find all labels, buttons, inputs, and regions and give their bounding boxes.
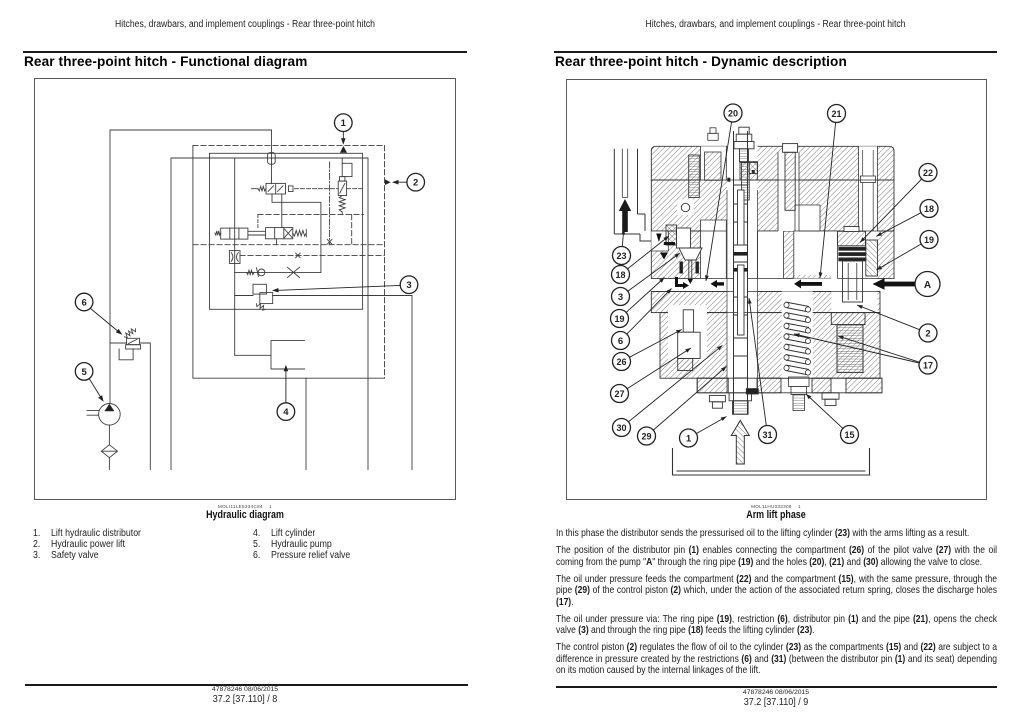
callout 2 (407, 173, 425, 191)
pilot dashed line (295, 188, 363, 190)
relief valve (6) (125, 329, 136, 338)
leader 23 (622, 229, 624, 247)
svg-text:21: 21 (831, 109, 841, 119)
leader 4 (285, 371, 287, 403)
suction filter (101, 445, 117, 458)
leader 17b (794, 334, 919, 363)
svg-text:1: 1 (686, 433, 692, 444)
callout 18 right (920, 200, 938, 218)
chamber C right (794, 231, 838, 275)
return spring (786, 302, 810, 375)
flow control restrictor (229, 251, 240, 264)
distributor enclosure solid (210, 153, 363, 309)
wire drain bottom (305, 378, 307, 469)
svg-text:1: 1 (341, 118, 347, 129)
chamber above check valve (701, 220, 727, 279)
oil flow arrow up (619, 199, 631, 211)
leader 29 (653, 366, 726, 430)
leader 5 (89, 378, 101, 398)
leader 3 (279, 285, 401, 290)
callout 31 (759, 426, 777, 444)
wire riser to pilot solenoid (271, 130, 273, 183)
callout 3 (612, 288, 630, 306)
left figure placeholder (34, 78, 456, 500)
oil gallery edges (651, 278, 894, 280)
legend (33, 528, 40, 539)
outer enclosure U (171, 158, 368, 470)
svg-text:4: 4 (283, 407, 289, 418)
oil tray (673, 448, 870, 475)
leader 30 (629, 345, 723, 422)
figure frame (35, 79, 456, 500)
valve A bore (831, 231, 877, 312)
svg-text:6: 6 (618, 336, 623, 347)
callout 4 (277, 403, 295, 421)
leader 21 (820, 123, 836, 279)
right figure placeholder (566, 79, 987, 500)
flow bent arrow (677, 277, 685, 286)
svg-text:6: 6 (81, 297, 86, 308)
callout 3 (400, 276, 418, 294)
svg-text:20: 20 (728, 108, 738, 118)
flow arrow mid right (801, 282, 823, 286)
bottom block step (707, 312, 831, 314)
pilot valve chamber (668, 305, 707, 360)
main control valve left (221, 228, 248, 239)
leader 1 (696, 417, 726, 434)
line check X (235, 271, 321, 273)
oil inlet arrow (731, 420, 749, 464)
check valve ball (258, 269, 265, 276)
dash-dot pilot vertical (329, 162, 331, 245)
control piston 2 cap (838, 231, 866, 246)
plate bolt right (822, 393, 839, 399)
callout 27 (611, 385, 629, 403)
base plate (697, 378, 882, 393)
dashed pilot line mid (240, 254, 385, 256)
leader 18r (876, 213, 921, 237)
svg-text:19: 19 (924, 235, 934, 245)
hydraulic pump (5) (99, 404, 121, 426)
svg-text:18: 18 (615, 270, 625, 280)
wire valve top riser (257, 215, 259, 228)
housing bottom block (660, 313, 880, 379)
leader 19l (626, 278, 664, 313)
spring seat nut (789, 377, 810, 387)
leader 20 (706, 122, 732, 281)
wire pump supply vertical (109, 130, 111, 403)
callout 21 (828, 105, 846, 123)
callout 15 (841, 426, 859, 444)
leader 15 (806, 394, 843, 428)
svg-text:23: 23 (616, 251, 626, 261)
svg-text:2: 2 (925, 328, 930, 339)
callout 19 left (611, 310, 629, 328)
valve link rods (248, 231, 266, 235)
flow arrow small left (656, 234, 661, 243)
housing second band (651, 180, 894, 231)
callout 20 (724, 104, 742, 122)
dashed chamber right edge (351, 215, 353, 245)
leader 2 (857, 305, 920, 330)
pin column clearance (727, 131, 758, 414)
svg-text:29: 29 (641, 431, 651, 441)
svg-text:27: 27 (614, 389, 624, 399)
svg-text:15: 15 (844, 430, 854, 440)
callout 5 (75, 363, 93, 381)
callout 6 (612, 332, 630, 350)
pocket around ball (677, 200, 694, 216)
check valve vertical (safety) (341, 158, 343, 163)
svg-text:30: 30 (616, 423, 626, 433)
housing lower band (651, 292, 880, 313)
tiny x marks (296, 253, 301, 258)
closed port X (288, 267, 300, 277)
lift cylinder (4) (235, 354, 271, 356)
callout 30 (613, 419, 631, 437)
leader 2 (397, 181, 407, 183)
callout 18 left (612, 266, 630, 284)
channel 21 walls (758, 231, 784, 279)
callout 2 (919, 324, 937, 342)
svg-text:31: 31 (762, 430, 772, 440)
housing top slab (651, 146, 894, 180)
callout 19 right (920, 231, 938, 249)
leader 17a (838, 336, 919, 362)
valve return spring (293, 230, 307, 236)
callout 6 (75, 293, 93, 311)
lift cylinder pipe 23 (614, 149, 651, 241)
svg-text:3: 3 (406, 280, 411, 291)
arrowheads (341, 138, 346, 145)
band edge lines (651, 179, 894, 181)
svg-text:26: 26 (616, 357, 626, 367)
leader 19r (876, 244, 921, 270)
plug body (705, 152, 722, 180)
dashed chamber line lower (193, 244, 385, 246)
wire link top (272, 194, 321, 272)
svg-text:22: 22 (923, 168, 933, 178)
seals (839, 247, 866, 250)
piston rod slot detail (859, 146, 878, 231)
safety valve (3) (235, 295, 253, 297)
pocket outline (651, 231, 668, 251)
slot above control piston (859, 146, 878, 231)
svg-text:2: 2 (413, 178, 418, 189)
leader 1 (342, 131, 344, 139)
spring channel (782, 292, 813, 379)
channel 21 (758, 231, 784, 279)
pin top nut (739, 127, 749, 134)
check valve 3 assembly (689, 155, 700, 198)
plate bolt left (709, 395, 725, 401)
left inlet notch (651, 231, 668, 251)
leader 18l (628, 236, 670, 269)
svg-text:18: 18 (924, 204, 934, 214)
pump inlet arrow A (884, 282, 918, 287)
leader 27 (627, 348, 691, 389)
leader 3 (628, 253, 680, 291)
callout 26 (613, 353, 631, 371)
chamber C outline (794, 205, 838, 279)
flow arrow mid left (716, 282, 724, 285)
leader 26 (629, 330, 681, 358)
ring stack 17 (831, 313, 865, 325)
callout 23 (613, 247, 631, 265)
distributor pin column (734, 131, 748, 414)
callout 22 (919, 164, 937, 182)
leader 6 (627, 289, 672, 335)
wire top horizontal (110, 129, 272, 131)
wire valve to flow control (234, 158, 236, 355)
connector fitting (268, 153, 276, 165)
svg-text:3: 3 (618, 292, 623, 303)
dashed stub (281, 194, 283, 228)
callout 17 (919, 356, 937, 374)
bolt slot (778, 152, 799, 231)
pilot valve 27 (683, 310, 693, 332)
figure frame (567, 80, 987, 500)
leader 6 (90, 308, 120, 333)
stud bolt head (783, 144, 798, 153)
leader 22 (860, 179, 922, 243)
svg-text:A: A (924, 280, 931, 291)
callout 1 (335, 114, 353, 132)
svg-text:19: 19 (614, 314, 624, 324)
dashed chamber line upper (258, 214, 364, 216)
check chamber walls (701, 220, 727, 279)
leader 31 (749, 298, 766, 426)
oil gallery horizontal (651, 279, 894, 292)
bolt slot walls (778, 152, 799, 231)
plug slot above check valve (701, 146, 727, 180)
solenoid fittings (252, 188, 259, 190)
housing mid band (651, 231, 894, 279)
callout 29 (638, 427, 656, 445)
pin bore walls (727, 190, 758, 393)
node A (915, 272, 940, 297)
flange (866, 240, 878, 276)
callout 1 (680, 429, 698, 447)
pilot solenoid valve (266, 183, 286, 194)
svg-text:5: 5 (81, 367, 87, 378)
boundary hydraulic power lift (2) dashed (193, 146, 385, 379)
svg-text:17: 17 (923, 360, 933, 370)
piston bore (843, 261, 863, 302)
spring coils (784, 302, 789, 307)
main control valve right (266, 228, 293, 239)
